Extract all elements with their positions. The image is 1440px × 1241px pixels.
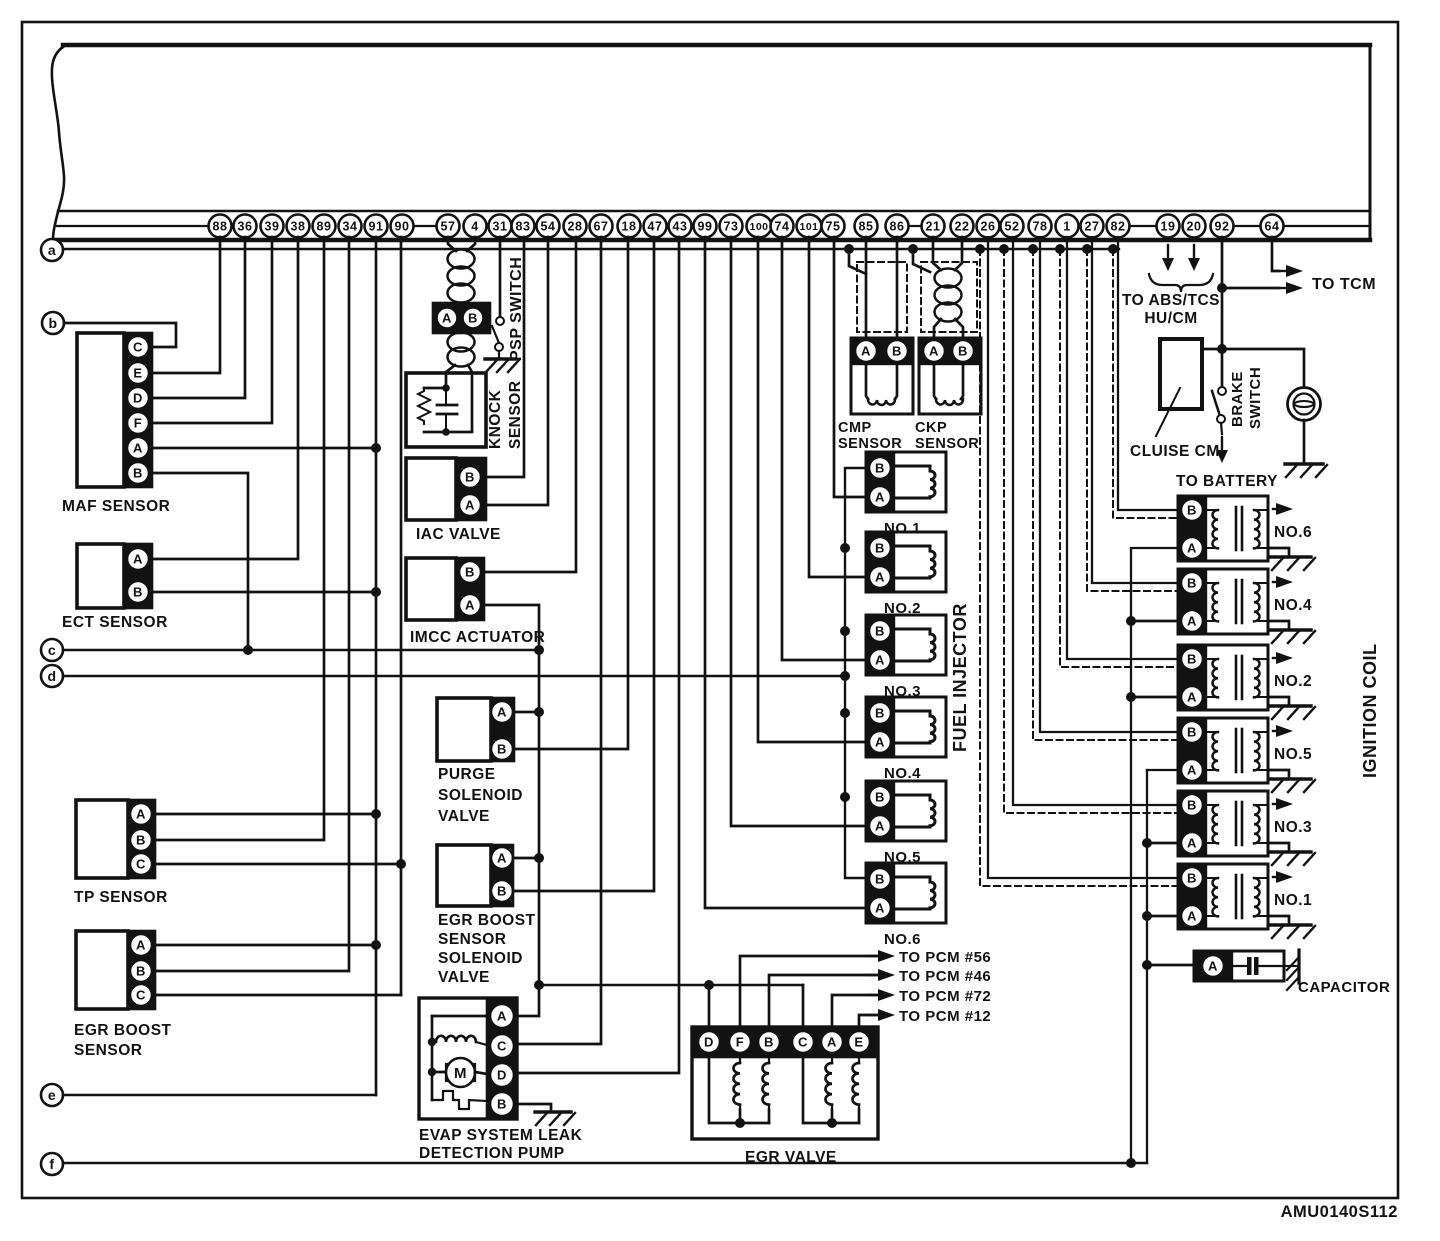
IAC pin A (459, 494, 481, 516)
net a wire (63, 248, 1119, 250)
CMP pickup coil (866, 364, 868, 399)
svg-text:89: 89 (317, 220, 332, 234)
wire TP B to pin 89 (155, 237, 324, 840)
svg-text:EGR VALVE: EGR VALVE (745, 1149, 837, 1166)
EVAP pump outer box (419, 998, 517, 1119)
svg-text:A: A (497, 1009, 507, 1024)
svg-text:TO ABS/TCS: TO ABS/TCS (1122, 292, 1220, 309)
PCM pin 34 (339, 215, 362, 238)
svg-text:f: f (49, 1156, 54, 1172)
svg-text:A: A (929, 344, 939, 359)
ECT pin B (127, 581, 149, 603)
svg-text:EVAP SYSTEM LEAK: EVAP SYSTEM LEAK (419, 1127, 583, 1144)
PCM pin 85 (855, 215, 878, 238)
injector NO.6 pin B (869, 868, 891, 890)
ignition coil NO.6 ground (1268, 548, 1289, 556)
net 91 vertical from pin 91 to net e (375, 237, 378, 1095)
svg-text:IMCC ACTUATOR: IMCC ACTUATOR (410, 629, 545, 646)
EVAP ground symbol (535, 1110, 571, 1113)
net f wire (63, 1162, 1147, 1164)
svg-text:CLUISE CM: CLUISE CM (1130, 443, 1220, 460)
wire purge A to net c vertical (514, 711, 539, 714)
svg-text:SENSOR: SENSOR (507, 381, 524, 449)
injector NO.2 pin B (869, 537, 891, 559)
PCM pin 54 (537, 215, 560, 238)
svg-text:54: 54 (541, 220, 556, 234)
node d circle (41, 665, 63, 687)
PCM pin 78 (1029, 215, 1052, 238)
EVAP pump internal coil (428, 1038, 436, 1046)
MAF pin D (127, 387, 149, 409)
pin 64 wire to TCM (1272, 237, 1279, 271)
svg-text:B: B (133, 466, 143, 481)
svg-text:C: C (497, 1039, 507, 1054)
svg-text:A: A (1187, 763, 1197, 778)
svg-text:B: B (136, 833, 146, 848)
TP pin A (130, 803, 152, 825)
injector NO.5 pin B (869, 786, 891, 808)
wire NO.2 A to bus (1131, 696, 1178, 699)
svg-text:A: A (136, 938, 146, 953)
svg-text:A: A (827, 1035, 837, 1050)
wire to brake lamp (1222, 349, 1304, 388)
ignition coil NO.4 box (1178, 569, 1268, 634)
PCM pin 18 (618, 215, 641, 238)
svg-text:B: B (958, 344, 968, 359)
MAF pin A (127, 437, 149, 459)
ignition coil NO.2 box (1178, 645, 1268, 710)
ignition coil NO.5 pin A (1181, 759, 1203, 781)
svg-text:18: 18 (622, 220, 637, 234)
wire EVAP D to pin 43 (517, 237, 679, 1073)
EGR boost sensor pin strip (128, 931, 155, 1009)
wire MAF B to net c (152, 473, 248, 650)
svg-text:1: 1 (1063, 220, 1070, 234)
pin 19 arrow to ABS (1167, 245, 1169, 259)
fuel injector NO.4 pin strip (866, 697, 894, 757)
PCM pin 36 (234, 215, 257, 238)
EGR boost sensor pin A (130, 934, 152, 956)
TP pin B (130, 829, 152, 851)
svg-text:B: B (468, 311, 478, 326)
CKP pickup coil (934, 364, 936, 399)
injector NO.2 pin A (869, 566, 891, 588)
svg-text:91: 91 (369, 220, 384, 234)
svg-text:BRAKE: BRAKE (1229, 371, 1246, 427)
pin 85 wire to CMP A (865, 237, 868, 340)
brace under ABS arrows (1149, 274, 1213, 292)
node f circle (41, 1153, 63, 1175)
EVAP pump internal valve symbol (432, 1091, 487, 1109)
svg-text:NO.2: NO.2 (1274, 673, 1312, 690)
svg-text:a: a (48, 242, 56, 258)
svg-text:B: B (875, 624, 885, 639)
PCM pin 38 (287, 215, 310, 238)
svg-text:B: B (1187, 652, 1197, 667)
svg-text:TO PCM #56: TO PCM #56 (899, 949, 991, 966)
cruise junction (1217, 344, 1227, 354)
svg-text:NO.5: NO.5 (1274, 746, 1312, 763)
svg-text:SOLENOID: SOLENOID (438, 950, 523, 967)
ignition coil NO.1 pin A (1181, 905, 1203, 927)
ignition coil NO.6 spark output arrow (1273, 508, 1281, 510)
CMP shield dashed box (857, 262, 907, 332)
CKP pin B (952, 340, 974, 362)
ignition coil NO.2 pin strip (1178, 645, 1206, 710)
svg-text:B: B (875, 872, 885, 887)
EGR valve pin D (698, 1031, 720, 1053)
svg-text:73: 73 (724, 220, 739, 234)
ignition coil NO.1 box (1178, 864, 1268, 929)
wire EVAP B to ground (517, 1104, 551, 1111)
MAF pin B (127, 462, 149, 484)
svg-text:CAPACITOR: CAPACITOR (1298, 979, 1390, 996)
svg-text:D: D (497, 1068, 507, 1083)
wire MAF E to pin 88 (152, 237, 220, 373)
injector NO.5 B junction (840, 792, 850, 802)
svg-text:c: c (48, 642, 56, 658)
wire NO.3 A to bus (1147, 842, 1178, 845)
svg-text:A: A (497, 851, 507, 866)
svg-text:B: B (497, 1097, 507, 1112)
fuel injector NO.3 box (866, 615, 946, 675)
svg-text:VALVE: VALVE (438, 969, 490, 986)
purge pin B (491, 738, 513, 760)
PCM pin 88 (209, 215, 232, 238)
ignition coil NO.5 spark output arrow (1273, 730, 1281, 732)
wire EGR boost C to pin 90 net (155, 994, 401, 997)
ignition coil NO.2 ground (1268, 697, 1289, 705)
PCM pin 75 (822, 215, 845, 238)
svg-text:B: B (133, 585, 143, 600)
ignition coil NO.4 transformer (1206, 582, 1218, 584)
node a circle (41, 239, 63, 261)
svg-text:SOLENOID: SOLENOID (438, 787, 523, 804)
wire EGR boost solenoid A to net c vertical (513, 857, 539, 860)
svg-text:MAF SENSOR: MAF SENSOR (62, 498, 170, 515)
ignition coil NO.1 pin strip (1178, 864, 1206, 929)
svg-text:D: D (133, 391, 143, 406)
shield dashed wire NO.1 (975, 244, 985, 254)
ignition coil NO.3 pin A (1181, 832, 1203, 854)
IMCC pin B (459, 561, 481, 583)
arrow to battery (1221, 437, 1223, 451)
wire NO.4 A to bus (1131, 620, 1178, 623)
svg-text:NO.3: NO.3 (1274, 819, 1312, 836)
svg-text:B: B (1187, 503, 1197, 518)
injector NO.4 pin A (869, 731, 891, 753)
wire IMCC B to pin 28 (484, 237, 576, 572)
svg-text:31: 31 (493, 220, 508, 234)
wire TP A to net 91 (155, 813, 376, 816)
svg-text:74: 74 (775, 220, 790, 234)
CKP shield dashed box (921, 262, 977, 332)
svg-text:TO PCM #72: TO PCM #72 (899, 988, 991, 1005)
cruise leader line (1156, 388, 1180, 436)
injector NO.1 pin B (869, 457, 891, 479)
svg-text:TO TCM: TO TCM (1312, 276, 1376, 293)
injector NO.1 pin A (869, 486, 891, 508)
wire 92 to TCM arrow (1217, 283, 1227, 293)
svg-text:88: 88 (213, 220, 228, 234)
CMP pin B (886, 340, 908, 362)
svg-text:100: 100 (749, 221, 768, 233)
svg-text:A: A (133, 441, 143, 456)
ECT pin A (127, 548, 149, 570)
EGR boost solenoid pin B (491, 880, 513, 902)
pin 90 drop vertical (400, 237, 403, 995)
wire injector NO.4 A to pin (758, 237, 866, 742)
capacitor pin A (1202, 955, 1224, 977)
EGR boost sensor body (76, 931, 128, 1009)
net d wire (63, 675, 845, 677)
wire IAC A to pin 54 (486, 237, 548, 505)
wire injector NO.1 A to pin (834, 237, 866, 497)
svg-text:SWITCH: SWITCH (1247, 367, 1264, 429)
ignition coil NO.2 transformer (1206, 658, 1218, 660)
capacitor box (1194, 951, 1284, 981)
wire pin to NO.5 B (1040, 237, 1178, 732)
ignition coil NO.5 pin strip (1178, 718, 1206, 783)
PCM pin 100 (747, 215, 772, 238)
PCM pin 20 (1183, 215, 1206, 238)
PCM pin 22 (951, 215, 974, 238)
EGR valve coils (739, 1057, 741, 1063)
injector NO.5 pin A (869, 815, 891, 837)
svg-text:C: C (136, 988, 146, 1003)
svg-text:28: 28 (568, 220, 583, 234)
PCM pin 27 (1081, 215, 1104, 238)
shield dashed wire NO.4 (1082, 244, 1092, 254)
ignition coil NO.4 spark output arrow (1273, 581, 1281, 583)
svg-text:83: 83 (516, 220, 531, 234)
svg-text:A: A (465, 598, 475, 613)
EGR valve pin E (848, 1031, 870, 1053)
node b circle (42, 312, 64, 334)
injector NO.4 coil (894, 711, 935, 743)
TP sensor pin strip (128, 800, 155, 878)
fuel injector NO.6 pin strip (866, 863, 894, 923)
ignition coil NO.4 pin A (1181, 610, 1203, 632)
svg-text:A: A (136, 807, 146, 822)
svg-text:B: B (892, 344, 902, 359)
PCM pin 91 (365, 215, 388, 238)
IAC valve pin strip (456, 458, 486, 520)
injector NO.3 coil (894, 629, 935, 661)
fuel injector NO.2 box (866, 532, 946, 592)
fuel injector NO.2 pin strip (866, 532, 894, 592)
IMCC actuator pin strip (456, 558, 484, 620)
PCM pin 4 (464, 215, 487, 238)
svg-text:26: 26 (981, 220, 996, 234)
svg-text:B: B (764, 1035, 774, 1050)
svg-text:NO.6: NO.6 (1274, 524, 1312, 541)
wire EGR boost A to net 91 (155, 944, 376, 947)
IMCC actuator body (406, 558, 456, 620)
svg-text:DETECTION PUMP: DETECTION PUMP (419, 1145, 565, 1162)
wire IMCC A to net c (484, 605, 539, 650)
svg-text:C: C (798, 1035, 808, 1050)
EGR valve pin B (758, 1031, 780, 1053)
wire NO.1 A to bus (1147, 915, 1178, 918)
cruise control module box (1160, 339, 1202, 409)
pin 92 drop wire (1221, 237, 1224, 387)
PCM pin 73 (720, 215, 743, 238)
shield dashed wire NO.5 (1028, 244, 1038, 254)
svg-text:A: A (1187, 614, 1197, 629)
svg-text:92: 92 (1215, 220, 1230, 234)
net a elbow to CMP shield (844, 244, 854, 254)
PSP switch contacts (496, 317, 504, 325)
ignition coil NO.3 ground (1268, 843, 1289, 851)
EVAP pump motor M (428, 1068, 436, 1076)
knock connector pin A (437, 308, 458, 329)
IAC pin B (459, 466, 481, 488)
injector NO.5 coil (894, 795, 935, 827)
brake lamp ground (1303, 420, 1306, 463)
wire down to EGR D (708, 985, 711, 1027)
PCM pin 19 (1157, 215, 1180, 238)
svg-text:NO.4: NO.4 (1274, 597, 1312, 614)
PCM pin 31 (489, 215, 512, 238)
fuel injector NO.6 box (866, 863, 946, 923)
ignition coil NO.1 ground (1268, 916, 1289, 924)
wire EGR boost B to pin 34 (155, 237, 349, 971)
svg-text:C: C (136, 857, 146, 872)
ignition coil NO.3 pin strip (1178, 791, 1206, 856)
svg-text:B: B (875, 706, 885, 721)
pin 20 arrow to ABS (1193, 245, 1195, 259)
wire MAF F to pin 39 (152, 237, 272, 423)
CMP pin A (855, 340, 877, 362)
MAF sensor pin strip (124, 333, 152, 487)
ignition coil NO.6 pin B (1181, 499, 1203, 521)
EVAP pump pin C (490, 1034, 514, 1058)
ignition coil NO.6 pin strip (1178, 496, 1206, 561)
svg-text:A: A (465, 498, 475, 513)
purge pin A (491, 701, 513, 723)
wire EGR E to PCM 12 (859, 1015, 877, 1027)
svg-text:A: A (875, 901, 885, 916)
ignition coil NO.5 box (1178, 718, 1268, 783)
ignition coil NO.4 ground (1268, 621, 1289, 629)
CKP pin A (923, 340, 945, 362)
svg-text:90: 90 (395, 220, 410, 234)
EGR valve right common rail (803, 1057, 859, 1123)
svg-text:M: M (454, 1065, 467, 1082)
capacitor element (1232, 965, 1247, 967)
svg-text:E: E (854, 1035, 863, 1050)
svg-text:B: B (497, 742, 507, 757)
ignition coil NO.1 pin B (1181, 867, 1203, 889)
ignition coil NO.2 pin A (1181, 686, 1203, 708)
svg-text:85: 85 (859, 220, 874, 234)
svg-text:EGR BOOST: EGR BOOST (74, 1022, 172, 1039)
wire EVAP C to pin 67 (517, 237, 601, 1044)
ignition coil NO.6 transformer (1206, 509, 1218, 511)
svg-text:4: 4 (471, 220, 478, 234)
ignition coil A ground bus 1147 (1147, 769, 1178, 771)
svg-text:b: b (48, 315, 57, 331)
wire EGR B to PCM 46 (769, 975, 877, 1027)
wire pin to NO.4 B (1092, 237, 1178, 583)
wire TP C to pin 90 net (155, 863, 401, 866)
PCM pin 67 (590, 215, 613, 238)
EGR boost solenoid pin strip (491, 845, 513, 906)
net e wire (63, 1094, 376, 1096)
svg-text:B: B (1187, 725, 1197, 740)
svg-text:IGNITION COIL: IGNITION COIL (1360, 644, 1380, 779)
svg-text:38: 38 (291, 220, 306, 234)
purge solenoid valve body (437, 698, 491, 761)
svg-text:A: A (875, 819, 885, 834)
svg-text:A: A (861, 344, 871, 359)
ignition coil A ground bus 1131 (1131, 548, 1178, 1163)
svg-text:57: 57 (441, 220, 456, 234)
wire EGR A to PCM 72 (832, 995, 877, 1027)
svg-text:A: A (133, 552, 143, 567)
ECT sensor pin strip (124, 544, 152, 608)
wire injector NO.5 A to pin (731, 237, 866, 826)
ignition coil NO.3 transformer (1206, 804, 1218, 806)
PCM pin 99 (694, 215, 717, 238)
svg-text:TO PCM #12: TO PCM #12 (899, 1008, 991, 1025)
injector NO.2 coil (894, 546, 935, 578)
svg-text:B: B (875, 541, 885, 556)
svg-text:20: 20 (1187, 220, 1202, 234)
ignition coil NO.5 ground (1268, 770, 1289, 778)
ignition coil NO.5 transformer (1206, 731, 1218, 733)
knock sensor internal capacitor (445, 388, 447, 405)
svg-text:B: B (465, 470, 475, 485)
EGR boost solenoid pin A (491, 847, 513, 869)
wire pin to NO.2 B (1067, 237, 1178, 659)
injector NO.4 B junction (840, 708, 850, 718)
EVAP pump internal rail (431, 1016, 434, 1100)
svg-text:PURGE: PURGE (438, 766, 496, 783)
EGR boost sensor solenoid valve body (437, 845, 491, 906)
MAF pin E (127, 362, 149, 384)
wire MAF D to pin 36 (152, 237, 245, 398)
fuel injector NO.5 pin strip (866, 781, 894, 841)
MAF pin F (127, 412, 149, 434)
svg-text:B: B (875, 461, 885, 476)
svg-text:B: B (1187, 798, 1197, 813)
purge solenoid pin strip (491, 698, 514, 761)
svg-text:B: B (136, 964, 146, 979)
svg-text:43: 43 (673, 220, 688, 234)
svg-text:A: A (1187, 541, 1197, 556)
PCM pin 101 (797, 215, 822, 238)
knock sensor internal resistor (418, 388, 430, 424)
svg-text:F: F (736, 1035, 744, 1050)
twisted pair pins 57/4 to knock connector (448, 237, 456, 251)
svg-text:C: C (133, 340, 143, 355)
ignition coil NO.5 pin B (1181, 721, 1203, 743)
svg-text:NO.4: NO.4 (884, 765, 921, 782)
svg-text:75: 75 (826, 220, 841, 234)
svg-text:AMU0140S112: AMU0140S112 (1281, 1203, 1398, 1221)
EGR valve pin A (821, 1031, 843, 1053)
EVAP pump pin B (490, 1092, 514, 1116)
injector NO.6 coil (894, 877, 935, 909)
svg-text:e: e (48, 1087, 56, 1103)
svg-text:67: 67 (594, 220, 609, 234)
svg-text:B: B (1187, 576, 1197, 591)
injector NO.2 B junction (840, 543, 850, 553)
shield dashed wire NO.6 (1108, 244, 1118, 254)
svg-text:B: B (875, 790, 885, 805)
